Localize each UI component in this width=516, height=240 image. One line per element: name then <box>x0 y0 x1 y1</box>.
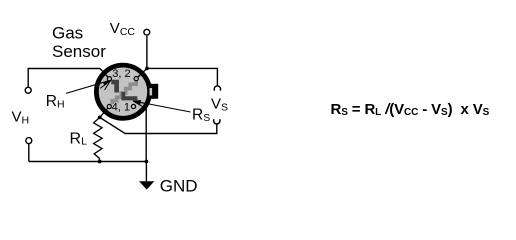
svg-text:VCC: VCC <box>110 20 136 38</box>
svg-text:3, 2: 3, 2 <box>112 68 130 80</box>
sensor pin 4 <box>107 104 111 108</box>
wire: VH bottom terminal down to ground rail <box>28 144 30 162</box>
junction dot at RL top node <box>98 116 102 120</box>
junction dot at RL bottom on ground rail <box>98 160 102 164</box>
wire: sensor lower-right lead down to ground rail <box>145 107 147 162</box>
sensor pin 2 <box>134 77 138 81</box>
wire: junction to VS top terminal (top-right) <box>147 68 217 86</box>
junction dot at VCC / pin 2 / VS node <box>145 67 149 71</box>
sensor pin 3 <box>107 77 111 81</box>
svg-text:RS: RS <box>192 106 210 124</box>
wire: VCC lead down to junction <box>146 36 148 69</box>
wire: VH top terminal to sensor (top-left horizontal) <box>28 69 100 88</box>
svg-text:RH: RH <box>46 93 65 111</box>
sensor element: dark electrode upper-left <box>111 80 119 93</box>
wire: RL top node diagonal to VS bottom terminal <box>100 117 217 133</box>
sensor element: gray heater staircase between pin 2 and pin 4 <box>112 80 136 105</box>
sensor pin 1 <box>131 104 135 108</box>
svg-text:VS: VS <box>211 96 228 114</box>
sensor element: dark electrode center <box>121 92 137 100</box>
sensor tab (index key) <box>150 84 159 99</box>
ground symbol (filled triangle) <box>139 181 154 189</box>
svg-text:Sensor: Sensor <box>52 42 106 61</box>
svg-text:RS = RL /(VCC - VS) x VS: RS = RL /(VCC - VS) x VS <box>331 101 490 118</box>
wire: diagonal from top-left wire to pin 3 <box>100 69 109 79</box>
wire: diagonal from pin 2 to VCC junction <box>136 69 147 79</box>
pointer line from RH label with arrowhead to pin 3 <box>66 80 111 93</box>
pointer line from RS label with arrowhead to pin 1 <box>133 100 191 112</box>
terminal VS bottom (open circle) <box>214 119 220 124</box>
terminal VH bottom (open circle) <box>26 138 32 144</box>
terminal VS top (open circle) <box>214 86 220 91</box>
terminal VCC (open circle) <box>144 29 150 35</box>
svg-text:Gas: Gas <box>52 23 83 42</box>
gas sensor body U1 (can, top view) <box>96 65 149 118</box>
svg-text:4, 1: 4, 1 <box>112 102 130 114</box>
terminal VH top (open circle) <box>25 87 31 93</box>
wire: ground stub down to ground symbol <box>145 162 147 182</box>
wire: bottom ground rail <box>29 161 147 163</box>
resistor RL zigzag <box>94 117 103 161</box>
svg-text:RL: RL <box>70 130 88 147</box>
svg-text:GND: GND <box>160 176 198 195</box>
wire: diagonal from pin 4 to RL top node <box>100 107 109 118</box>
junction dot at ground stub <box>145 160 149 164</box>
svg-text:VH: VH <box>12 109 30 127</box>
